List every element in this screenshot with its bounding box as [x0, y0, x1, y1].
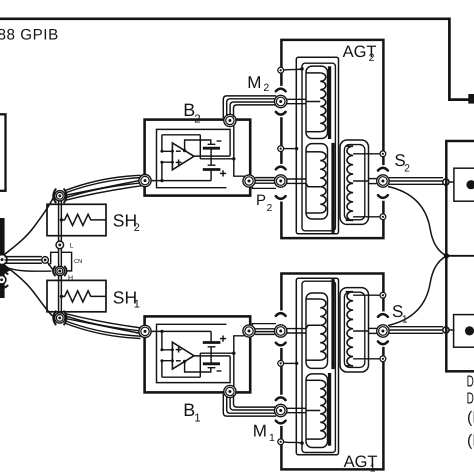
minus sign at battery V1a: [217, 370, 222, 372]
svg-text:2: 2: [404, 162, 410, 174]
wire hypotenuse tap to battery V1a: [185, 361, 211, 372]
secondary tap to bottom node: [353, 216, 380, 218]
battery V1a of B1: [208, 367, 216, 369]
GPIB connector arrow into DVM (cropped at right edge): [468, 94, 474, 104]
shield flare below S2: [378, 195, 388, 198]
terminal B2 top (to M2 cables): [224, 114, 236, 126]
svg-text:2: 2: [134, 222, 140, 234]
terminal B1 bottom (to M1 cables): [224, 385, 236, 397]
wire wedge at panel: [5, 266, 11, 273]
secondary tap to S2 (coax): [353, 180, 368, 182]
terminal P2: [275, 175, 287, 187]
DVM input connector box hi: [454, 168, 474, 201]
svg-text:1: 1: [194, 413, 200, 425]
winding W2b coil: [320, 152, 326, 213]
shield flare below M1: [276, 421, 286, 424]
wire node to primary shield of AGT2: [284, 69, 302, 70]
winding W1b top lead: [307, 379, 321, 381]
guarded bus L down to H: [58, 249, 60, 267]
shield flare right of SLO terminal: [64, 311, 66, 324]
winding W1b shield: [306, 374, 328, 448]
terminal S2: [377, 175, 389, 187]
cable from panel down to sense-lo terminal (curved): [4, 264, 54, 316]
winding W2b shield: [306, 144, 328, 219]
secondary tap to top node: [353, 153, 380, 155]
op-amp U2: [172, 143, 194, 170]
input rail from B1 input terminal: [151, 330, 211, 332]
guard transformer box AGT1: [281, 273, 383, 469]
guarded bus (twin conductors) SHI terminal down to L: [58, 201, 60, 242]
junction dots at U1 inputs: [160, 359, 163, 362]
cable from panel up to sense-hi terminal (curved): [4, 198, 54, 255]
cable bundle SHI terminal to B2 input terminal (5 conductors): [65, 175, 141, 191]
shield flare above P2: [276, 167, 286, 170]
coax cable CN from panel to CN terminal (3 conductors): [5, 256, 42, 258]
svg-text:1: 1: [269, 432, 275, 444]
minus sign at U1 inverting input: [176, 360, 181, 362]
junction input rail / non-inverting riser (B1): [160, 330, 163, 333]
plus sign at U2 non-inverting input: [176, 161, 182, 163]
shield flare right of H: [65, 266, 67, 275]
cable bundle SLO terminal to B1 input terminal (5 conductors): [65, 323, 141, 339]
cable from panel to H terminal (curved): [4, 267, 52, 272]
guard transformer box AGT2: [281, 40, 383, 238]
terminal on connector panel (output): [0, 255, 7, 265]
DVM input connector box lo: [454, 315, 474, 348]
node secondary bottom on AGT1 edge: [380, 356, 386, 362]
shield flare left of SLO terminal: [53, 311, 55, 324]
junction DVM guard: [444, 253, 449, 258]
guard cable from S2 down to DVM guard junction: [388, 187, 446, 256]
svg-text:2: 2: [194, 113, 200, 125]
shield flare above S2: [378, 168, 388, 171]
DVM input contact hi (black): [466, 180, 474, 189]
svg-text:CN: CN: [74, 258, 82, 265]
shield flare right of SHI terminal: [64, 189, 66, 202]
wire junction up to B1 output terminal: [234, 336, 245, 353]
winding W2a bottom lead: [307, 131, 321, 133]
coax S1 to DVM input (3 conductors): [389, 326, 443, 328]
shield flare below lower panel terminal: [0, 286, 8, 288]
coax S2 to DVM input (3 conductors): [389, 177, 443, 179]
battery V2a of B2: [208, 143, 216, 145]
guard bracket left of CN recess: [48, 252, 58, 265]
minus sign at battery V2a: [217, 140, 222, 142]
core bar of AGT1 (upper): [331, 279, 334, 369]
svg-text:2: 2: [263, 82, 269, 94]
guard drive junction in B1: [232, 352, 235, 355]
secondary shield of AGT2 (double wall): [340, 140, 369, 224]
resistor SH1: [61, 291, 106, 302]
terminal SHI (above SH2): [55, 191, 65, 201]
terminal CN: [42, 257, 49, 264]
node on AGT1 edge (primary shield tie, bottom): [278, 439, 284, 445]
secondary shield of AGT1 (double wall): [340, 288, 369, 372]
DVM input contact lo (black): [465, 326, 474, 335]
secondary coil of AGT2: [347, 146, 353, 220]
coax B1 output to P1 (4 conductors): [255, 333, 275, 335]
node on AGT2 edge (mid, winding-2 shield tie): [278, 146, 284, 152]
feedback rail in B2: [162, 134, 200, 136]
secondary bottom lead: [346, 219, 354, 221]
terminal SLO (below SH1): [55, 313, 65, 323]
riser feedback rail to output-side rail: [199, 135, 201, 159]
svg-text:D: D: [467, 373, 474, 390]
secondary tap to S1 (coax): [353, 330, 368, 332]
svg-text:(H: (H: [467, 410, 474, 427]
shield flare above lower panel terminal: [0, 272, 8, 274]
svg-text:2: 2: [267, 203, 273, 214]
svg-text:M: M: [247, 73, 261, 92]
terminal B1 input (left): [139, 325, 151, 337]
DVM box (cropped at right edge): [446, 141, 474, 371]
cable bundle B2 top terminal to M2 (4 conductors): [223, 96, 276, 118]
shunt box SH1: [47, 280, 106, 311]
node secondary bottom on AGT2 edge: [380, 214, 386, 220]
shield flare below S1: [378, 342, 388, 345]
winding W2b bottom lead: [307, 212, 321, 214]
svg-text:L: L: [70, 243, 74, 250]
shield flare above M1: [276, 397, 286, 400]
node on AGT1 edge (mid, winding shield tie): [278, 361, 284, 367]
guard return line above P1 coax: [252, 324, 276, 325]
junction of SH2 resistor with bus: [60, 218, 63, 221]
junction dots at U2 inputs: [160, 150, 163, 153]
svg-text:88 GPIB: 88 GPIB: [0, 27, 59, 44]
winding W2b top lead: [307, 151, 321, 153]
battery V2b of B2: [208, 164, 216, 166]
guard cable from S1 up to DVM guard junction: [388, 256, 446, 325]
coax M2 into winding W2a: [287, 98, 306, 100]
wire CN terminal to H shield: [48, 263, 53, 270]
winding W1b bottom lead: [307, 438, 321, 440]
output-side rail to guard-drive junction: [200, 158, 234, 160]
wire op-amp U1 output to guard join: [194, 355, 230, 357]
coax P1 into winding W1a: [287, 328, 306, 330]
guard drive line from B2 top terminal: [233, 126, 235, 159]
plus sign at U1 non-inverting input: [176, 349, 182, 351]
junction dot on hypotenuse of U2: [183, 149, 186, 152]
winding W1a coil: [320, 299, 326, 360]
guard shield inside B2 (open at output): [157, 129, 231, 187]
feedback rail in B1: [162, 376, 200, 378]
buffer amplifier box B1: [145, 316, 251, 392]
winding W1a shield: [306, 293, 328, 368]
wire input rail to non-inverting input of U1: [162, 331, 173, 349]
wire junction down to B2 output terminal: [234, 159, 245, 176]
terminal S1: [377, 325, 389, 337]
terminal P1: [275, 325, 287, 337]
junction input rail / non-inverting riser: [160, 179, 163, 182]
winding W2a top lead: [307, 72, 321, 74]
junction dot on hypotenuse of U1: [183, 360, 186, 363]
primary outer shield of AGT1: [296, 278, 338, 455]
svg-text:1: 1: [370, 462, 376, 474]
secondary bottom lead (AGT1): [346, 365, 354, 367]
input rail from B2 input terminal: [151, 180, 211, 182]
wire between batteries of B1: [210, 347, 212, 364]
guard bracket right of CN recess down to H: [61, 252, 71, 271]
wire feedback rail to inverting input: [162, 135, 173, 152]
node secondary top on AGT1 edge: [380, 292, 386, 298]
node secondary top on AGT2 edge: [380, 151, 386, 157]
node on AGT2 edge (primary shield tie, top): [278, 67, 284, 73]
svg-text:P: P: [256, 192, 266, 209]
riser feedback rail to output-side rail (B1): [199, 353, 201, 377]
winding W1a top lead: [307, 298, 321, 300]
coax B2 output to P2 (4 conductors): [255, 177, 275, 179]
winding W2a coil: [320, 73, 326, 132]
terminal on connector panel (lower): [0, 276, 6, 285]
secondary top lead (AGT1): [346, 291, 354, 293]
terminal M2: [275, 95, 287, 107]
shield flare below M2: [276, 112, 286, 115]
wire node to winding shield (AGT1): [284, 362, 297, 364]
shield flare below P1: [276, 343, 286, 346]
calibrator box (cropped at left edge): [0, 114, 6, 191]
secondary tap to bottom node (AGT1): [353, 358, 380, 360]
op-amp U1: [172, 342, 194, 369]
guard return line below P2 coax: [252, 187, 276, 188]
primary outer shield of AGT2: [296, 57, 338, 234]
svg-text:D: D: [467, 391, 474, 408]
output-side rail to guard-drive junction (B1): [200, 352, 234, 354]
wire between batteries of B2: [210, 148, 212, 165]
wire node to winding shield: [284, 148, 297, 150]
plus sign at battery V1b: [220, 338, 226, 340]
terminal B2 input (left): [139, 175, 151, 187]
terminal DVM input lo: [443, 327, 449, 333]
wire op-amp U2 output to guard join: [194, 155, 230, 157]
junction of SH1 resistor with bus: [60, 295, 63, 298]
terminal DVM input hi: [443, 179, 449, 185]
svg-text:2: 2: [369, 52, 375, 64]
minus sign at U2 inverting input: [176, 150, 181, 152]
wire terminal into DVM input box (lo): [449, 329, 455, 331]
shunt box SH2: [47, 204, 106, 235]
core bar of AGT2 (upper): [328, 66, 331, 139]
svg-text:1: 1: [134, 299, 140, 311]
coax M1 into winding W1b: [287, 407, 306, 409]
terminal M1: [275, 404, 287, 416]
svg-text:M: M: [253, 421, 267, 440]
guard drive line from B1 bottom terminal: [233, 353, 235, 386]
connector panel block (black, cropped at left edge): [0, 218, 5, 298]
wire node to primary shield of AGT1: [284, 442, 302, 443]
guarded bus H down to SLO terminal: [58, 275, 60, 313]
primary inner shield of AGT2: [302, 63, 335, 231]
svg-text:H: H: [68, 275, 73, 282]
battery V1b of B1: [208, 346, 216, 348]
shield flare left of SHI terminal: [53, 189, 55, 202]
winding W1b coil: [320, 380, 326, 439]
guard shield inside B1 (open at output): [157, 324, 231, 382]
core bar of AGT1 (lower): [328, 373, 331, 446]
wire battery V2b to input rail: [210, 170, 212, 181]
shield flare left of H: [53, 266, 55, 275]
cable bundle B1 bottom terminal to M1 (4 conductors): [223, 394, 276, 416]
terminal H on bus: [55, 266, 64, 275]
secondary top lead: [346, 145, 354, 147]
secondary coil of AGT1: [347, 292, 353, 366]
wire hypotenuse tap to battery V2a: [185, 140, 211, 151]
shield flare above M2: [276, 89, 286, 92]
shield flare above P1: [276, 313, 286, 316]
wire DVM guard junction into DVM: [446, 255, 474, 257]
shield flare below P2: [276, 196, 286, 199]
svg-text:(H: (H: [467, 432, 474, 449]
winding W2a shield: [306, 66, 328, 138]
terminal B2 output (right, to P2): [243, 175, 255, 187]
core bar of AGT2 (lower): [331, 143, 334, 233]
wire feedback rail to inverting input of U1: [162, 361, 173, 378]
terminal B1 output (right, to P1): [243, 325, 255, 337]
primary inner shield of AGT1: [302, 281, 335, 452]
guard drive junction in B2: [232, 157, 235, 160]
secondary tap to top node (AGT1): [353, 294, 380, 296]
shield flare above S1: [378, 314, 388, 317]
resistor SH2: [61, 214, 106, 225]
wire terminal into DVM input box: [449, 181, 455, 183]
buffer amplifier box B2: [145, 120, 251, 196]
wire battery V1b to input rail: [210, 331, 212, 342]
winding W1a bottom lead: [307, 359, 321, 361]
coax P2 into winding W2b: [287, 178, 306, 180]
wire input rail to non-inverting input: [162, 162, 173, 180]
wire IEEE-488 GPIB bus from controller to DVM: [0, 19, 469, 100]
plus sign at battery V2b: [220, 172, 226, 174]
terminal L on bus: [56, 241, 64, 249]
